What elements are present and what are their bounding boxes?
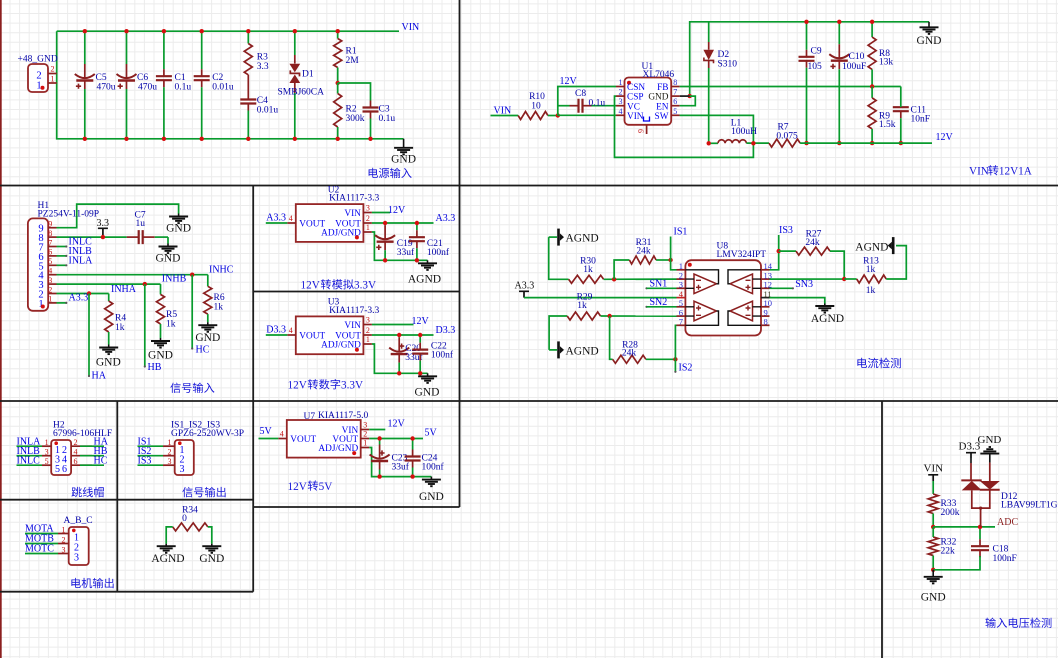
wire EN to GND [680,95,690,97]
svg-text:VIN: VIN [969,166,989,178]
svg-text:24k: 24k [805,238,820,248]
svg-text:D1: D1 [302,70,314,80]
svg-text:+48_GND: +48_GND [18,55,58,65]
svg-text:AGND: AGND [566,233,599,245]
svg-text:SN3: SN3 [795,279,813,290]
wire GND bottom rail [57,31,404,139]
wire HB branch [144,284,146,366]
wire ADJ/GND to rail (U2) [372,232,428,260]
svg-text:12V: 12V [301,280,320,292]
wire HC branch [191,275,193,349]
svg-text:4: 4 [74,448,78,457]
wire SN1 to pin3 [645,287,647,289]
resistor R3 3.3 [247,31,249,43]
svg-text:1: 1 [363,439,367,448]
power port GND (C7) [167,244,169,247]
svg-text:3: 3 [62,545,66,554]
svg-text:2M: 2M [346,56,360,66]
svg-text:R2: R2 [346,105,357,115]
svg-text:200k: 200k [941,508,960,518]
wire IS1 to pin1 [671,237,677,270]
svg-text:0: 0 [182,514,187,524]
svg-text:12V: 12V [412,316,430,327]
svg-text:C4: C4 [257,96,268,106]
junction R30/R31 [612,277,616,281]
wire ADJ/GND to rail (U3) [372,344,428,373]
svg-text:GND: GND [978,434,1002,446]
svg-text:13k: 13k [879,58,894,68]
resistor R4 1k [108,294,110,302]
capacitor C23 33uf [379,439,381,445]
svg-text:1: 1 [36,81,41,92]
svg-text:D3.3: D3.3 [436,325,456,336]
resistor R33 200k [932,481,934,494]
svg-text:IS1: IS1 [674,226,688,237]
svg-text:INHA: INHA [111,284,137,295]
wire GND top rail [690,22,929,96]
capacitor C11 10nF [900,87,902,99]
junction 3.3/C7 [101,235,105,239]
wire 12V to U3 VIN [372,324,414,326]
svg-text:AGND: AGND [855,241,888,253]
svg-text:470u: 470u [138,83,157,93]
svg-text:GND: GND [391,154,416,166]
svg-text:0.01u: 0.01u [257,106,279,116]
svg-text:C3: C3 [379,105,390,115]
svg-text:12V: 12V [936,132,954,143]
svg-text:GND: GND [917,35,942,47]
svg-text:C10: C10 [849,52,865,62]
wire FB row [680,86,901,88]
svg-text:INHC: INHC [209,264,234,275]
svg-text:9: 9 [48,220,52,229]
section title 电源输入 [369,168,378,178]
power port AGND (U2) [427,260,429,263]
svg-text:A3.3: A3.3 [515,281,535,292]
svg-text:5: 5 [673,107,677,116]
junction R29/R28 [607,314,611,318]
wire A3.3 input [266,222,288,224]
svg-text:VIN: VIN [344,321,361,331]
wire VIN row to U1 VIN pin [558,114,616,116]
svg-text:5: 5 [48,257,52,266]
capacitor C5 470u [84,31,86,64]
svg-text:C18: C18 [993,545,1009,555]
svg-text:1: 1 [366,335,370,344]
svg-text:6: 6 [74,457,78,466]
svg-text:0.1u: 0.1u [175,83,192,93]
section title 电流检测 [857,358,867,368]
svg-text:0.1u: 0.1u [589,98,606,108]
inductor L1 100uH [718,140,746,144]
svg-text:AGND: AGND [566,345,599,357]
wire SN3 from pin12 [770,287,793,289]
resistor R32 22k [928,537,938,556]
junction C18/ADC [978,525,982,529]
svg-text:1: 1 [619,78,623,87]
junction dot C11 bottom [899,141,903,145]
IC U1 XL7046 [625,78,672,125]
capacitor C18 100nF [979,527,981,539]
svg-text:PZ254V-11-09P: PZ254V-11-09P [38,209,100,219]
svg-text:GND: GND [148,350,173,362]
svg-text:3: 3 [48,276,52,285]
capacitor C6 470u [126,31,128,64]
capacitor C9 105 [806,22,808,50]
resistor R31 24k [629,256,656,264]
capacitor C20 33uf [398,335,400,338]
svg-text:8: 8 [48,229,52,238]
wire VIN top rail [57,30,399,32]
power port GND (R34) [211,544,213,547]
svg-text:5: 5 [45,457,49,466]
svg-text:EN: EN [656,102,669,112]
junction dot R9 bottom [870,141,874,145]
resistor R28 24k [613,355,646,363]
junction dot R2 bottom [336,137,340,141]
diode D2 S310 [708,22,710,42]
svg-text:XL7046: XL7046 [643,70,675,80]
svg-text:1k: 1k [577,301,587,311]
svg-text:VIN: VIN [402,22,420,33]
wire pin8 3.3 rail [57,236,103,238]
svg-text:24k: 24k [622,349,637,359]
wire HA branch [88,294,90,377]
wires/labels HA HB HC (H2) [80,445,104,447]
resistor R10 10 [518,112,548,120]
svg-text:1: 1 [48,295,52,304]
pin1 marker H2 [54,441,58,445]
U1 pin stubs left [616,86,625,88]
junction dots C23 [377,436,381,440]
wire R13 to AGND [886,246,906,279]
power port GND (R6) [207,322,209,325]
svg-text:1k: 1k [166,320,176,330]
svg-text:VIN: VIN [924,462,944,474]
svg-text:R1: R1 [346,47,357,57]
wire C7 to GND [167,237,169,243]
svg-text:3: 3 [168,457,172,466]
wires/labels INLA INLB INLC [17,445,43,447]
junction dots C9 [804,20,808,24]
resistor R27 24k [779,250,796,252]
svg-text:3: 3 [366,204,370,213]
capacitor C22 100nf [419,335,421,343]
resistor R8 13k [871,22,873,37]
svg-text:5: 5 [55,464,60,475]
op-amp A (top-left) [694,274,717,294]
IS connector pins [163,445,175,447]
svg-text:R6: R6 [214,293,225,303]
U2 pin stubs [287,222,296,224]
svg-text:C8: C8 [575,89,586,99]
junction dots C21 [415,221,419,225]
svg-text:7: 7 [673,88,677,97]
svg-text:12V1A: 12V1A [999,166,1032,178]
wire R27 to R13 junction [770,251,845,279]
svg-text:A_B_C: A_B_C [64,516,93,526]
svg-text:HC: HC [196,344,210,355]
svg-text:6: 6 [48,248,52,257]
svg-text:1: 1 [51,75,55,84]
wire R29 to U8 pin6 [601,315,677,317]
svg-text:8: 8 [764,317,768,327]
junction dots C22 [418,333,422,337]
wire R31 branch [614,260,629,279]
wire AGND to R30 [549,236,557,238]
junction INHA/HA [87,291,91,295]
svg-text:C2: C2 [212,73,223,83]
wire pin2 INHA row [57,293,109,295]
wire R10 to junction [548,115,558,117]
pin1 marker U8 [688,263,692,267]
section title 跳线帽 [71,487,82,497]
svg-text:33uf: 33uf [392,462,410,473]
resistor R9 1.5k [871,87,873,98]
svg-text:LMV324IPT: LMV324IPT [717,250,767,260]
junction dots R1 [336,29,340,33]
wire 5V input [259,438,279,440]
junction dots C19 [383,221,387,225]
svg-text:IS3: IS3 [779,225,793,236]
svg-text:IS2: IS2 [679,363,693,374]
power port AGND bottom-left [557,341,560,358]
svg-text:1k: 1k [214,303,224,313]
svg-text:105: 105 [808,62,823,72]
resistor R1 2M [337,31,339,38]
svg-text:100uH: 100uH [731,127,757,137]
svg-text:R3: R3 [257,53,268,63]
svg-text:1k: 1k [583,265,593,275]
pin 2 of P1 [48,73,57,75]
section divider lines [0,185,1058,187]
wire 12V to U1 CSN [558,87,616,116]
wires/labels MOTA MOTB MOTC [25,533,58,535]
wire 12V to U2 VIN [372,212,390,214]
svg-text:24k: 24k [636,247,651,257]
junction D2/L1 [707,141,711,145]
svg-text:3: 3 [619,97,623,106]
resistor R13 1k [844,278,857,280]
svg-text:KIA1117-3.3: KIA1117-3.3 [329,306,379,316]
svg-text:7: 7 [48,238,52,247]
dual diode D12 LBAV99LT1G [970,463,972,480]
svg-text:2: 2 [363,430,367,439]
svg-text:INHB: INHB [162,274,187,285]
svg-text:3: 3 [366,316,370,325]
wire CSP bottom loop [615,96,754,157]
svg-text:3.3: 3.3 [257,62,269,72]
svg-text:S310: S310 [718,60,738,70]
junction R10/C8/VIN pin [556,113,560,117]
svg-text:1: 1 [168,438,172,447]
svg-text:2: 2 [168,448,172,457]
pin1 marker IS conn [178,441,182,445]
svg-text:GND: GND [156,252,181,264]
junction dots C20 [397,333,401,337]
svg-text:C6: C6 [137,73,148,83]
svg-text:HB: HB [148,362,162,373]
power port GND (U3) [427,373,429,376]
wire 12V to U7 VIN [369,429,385,431]
svg-text:8: 8 [673,78,677,87]
svg-text:2: 2 [51,65,55,74]
svg-text:HC: HC [94,455,108,466]
pin1 marker U3 [355,348,359,352]
svg-text:1u: 1u [136,219,146,229]
junction dots C1 [162,29,166,33]
capacitor C4 0.01u [247,75,249,100]
svg-text:GND: GND [419,491,444,503]
svg-text:R4: R4 [115,314,126,324]
svg-text:SW: SW [655,112,669,122]
svg-text:7: 7 [679,317,683,327]
svg-text:R5: R5 [166,310,177,320]
wire 12V output rail [800,142,932,144]
pin1 marker U7 [352,451,356,455]
svg-text:0.075: 0.075 [776,131,798,141]
svg-text:470u: 470u [97,83,116,93]
wire pin11 to AGND [770,298,825,304]
capacitor C1 0.1u [163,31,165,69]
svg-text:C5: C5 [96,73,107,83]
svg-text:CSP: CSP [627,93,644,103]
svg-text:100nf: 100nf [427,247,450,258]
svg-text:HA: HA [92,371,107,382]
svg-text:4: 4 [619,107,623,116]
junction IS1 [668,258,672,262]
power port AGND (pin11) [824,304,826,307]
TVS diode D1 SMBJ60CA [294,31,296,55]
svg-text:FB: FB [657,83,668,93]
wire R28 branch [610,316,613,359]
capacitor C19 33uf [384,223,386,225]
svg-text:2: 2 [48,285,52,294]
wire C18 bottom row [933,556,980,570]
wire pin7 INLC [57,246,67,248]
svg-text:3: 3 [45,448,49,457]
wire D2 to L1 row [709,142,718,144]
svg-text:4: 4 [48,267,52,276]
svg-text:C1: C1 [175,73,186,83]
junction dots C24 [410,436,414,440]
wire ADC row [933,526,995,528]
svg-text:GND: GND [195,332,220,344]
wire pin7 riser [675,325,676,359]
svg-text:GND: GND [199,553,224,565]
svg-text:1: 1 [45,438,49,447]
op-amp D (bottom-right) [730,301,753,321]
wire VIN to R10 [491,115,519,117]
H2 pins and numbers [42,445,51,447]
svg-text:100nf: 100nf [431,350,454,361]
power port AGND top-left [557,229,560,246]
junction dots C5 [83,29,87,33]
svg-text:2: 2 [74,438,78,447]
capacitor C10 100uF [838,22,840,44]
svg-text:100uF: 100uF [842,62,866,72]
svg-text:3.3: 3.3 [97,218,110,229]
svg-text:12V: 12V [288,481,307,493]
power port GND (U7) [430,477,432,480]
power port AGND (R34) [165,544,167,547]
wire pin9 to GND [57,204,179,228]
svg-text:5V: 5V [425,427,438,438]
wire pin1 A3.3 [57,302,67,304]
wire R31 to IS1 [656,259,671,261]
junction dot C3 bottom [368,137,372,141]
svg-text:3: 3 [180,464,185,475]
svg-text:IS3: IS3 [138,455,152,466]
svg-text:1k: 1k [866,265,876,275]
svg-text:4: 4 [289,214,293,223]
pin1 marker U2 [355,235,359,239]
power port AGND top-right [892,237,895,254]
svg-text:VIN: VIN [627,112,644,122]
wire pin6 INLB [57,255,67,257]
svg-text:3: 3 [74,552,79,563]
svg-text:22k: 22k [941,547,956,557]
svg-text:A3.3: A3.3 [436,213,456,224]
pin1 marker U1 [627,81,631,85]
junction dots R3/C4 [246,29,250,33]
svg-text:2: 2 [62,535,66,544]
svg-text:100nF: 100nF [993,554,1017,564]
capacitor C7 1u [103,236,127,238]
svg-text:6: 6 [62,464,67,475]
wire L1 to R7 [746,142,769,144]
svg-text:CSN: CSN [627,83,645,93]
junction R27/R13/pin13 [842,277,846,281]
junction IS2 [673,357,677,361]
wire VOUT rail (U3) [372,334,434,336]
svg-text:AGND: AGND [811,313,844,325]
junction dots C6 [124,29,128,33]
wire R34 left to AGND [166,527,173,544]
svg-text:1k: 1k [115,323,125,333]
svg-text:10: 10 [531,101,541,111]
junction R32/C18 bottom [931,568,935,572]
junction IS3/R27 [777,249,781,253]
svg-text:VIN: VIN [344,209,361,219]
wire U7 VOUT rail [369,438,423,440]
wire R30 to U8 pin2 [604,278,677,280]
svg-text:5V: 5V [319,481,333,493]
svg-text:KIA1117-3.3: KIA1117-3.3 [329,194,379,204]
op-amp C (bottom-left) [694,301,717,321]
svg-text:A3.3: A3.3 [266,213,286,224]
svg-text:MOTC: MOTC [25,544,54,555]
svg-text:2: 2 [366,214,370,223]
svg-text:3.3V: 3.3V [354,280,376,292]
svg-text:12V: 12V [288,380,307,392]
section title 电机输出 [71,578,80,588]
svg-text:3.3V: 3.3V [341,380,363,392]
svg-text:300k: 300k [346,114,365,124]
svg-text:SMBJ60CA: SMBJ60CA [278,88,325,98]
wire D3.3 input [266,334,288,336]
svg-text:1k: 1k [866,286,876,296]
wire R34 right to GND [208,527,212,544]
U1 pin stubs right [671,86,680,88]
junction INHB/HB [143,282,147,286]
wire pin3 INHB row [57,283,161,285]
wire A3.3 to U8 pin4 [524,297,677,299]
svg-text:4: 4 [289,326,293,335]
svg-text:2: 2 [366,326,370,335]
junction dots D1 [293,29,297,33]
capacitor C24 100nf [412,439,414,450]
